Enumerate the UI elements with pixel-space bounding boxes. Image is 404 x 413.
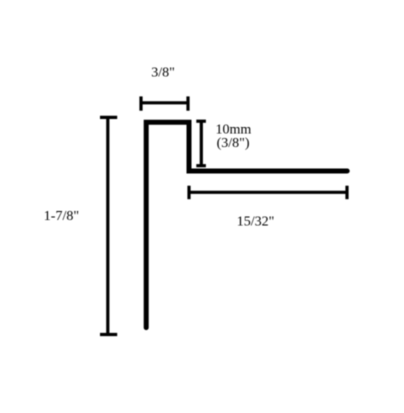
value label 10mm (3/8"): [216, 123, 252, 151]
profile outline (step trim cross-section): [146, 122, 347, 327]
dimension line 1-7/8" (overall height): [100, 117, 117, 334]
dimension line 3/8" (top width): [141, 96, 188, 110]
dimension line 10mm (step height): [196, 121, 206, 166]
dimension line 15/32" (bottom leg length): [189, 186, 347, 200]
svg-text:1-7/8": 1-7/8": [44, 209, 79, 224]
svg-text:3/8": 3/8": [151, 66, 175, 81]
svg-text:15/32": 15/32": [237, 215, 275, 230]
svg-text:(3/8"): (3/8"): [217, 136, 250, 151]
